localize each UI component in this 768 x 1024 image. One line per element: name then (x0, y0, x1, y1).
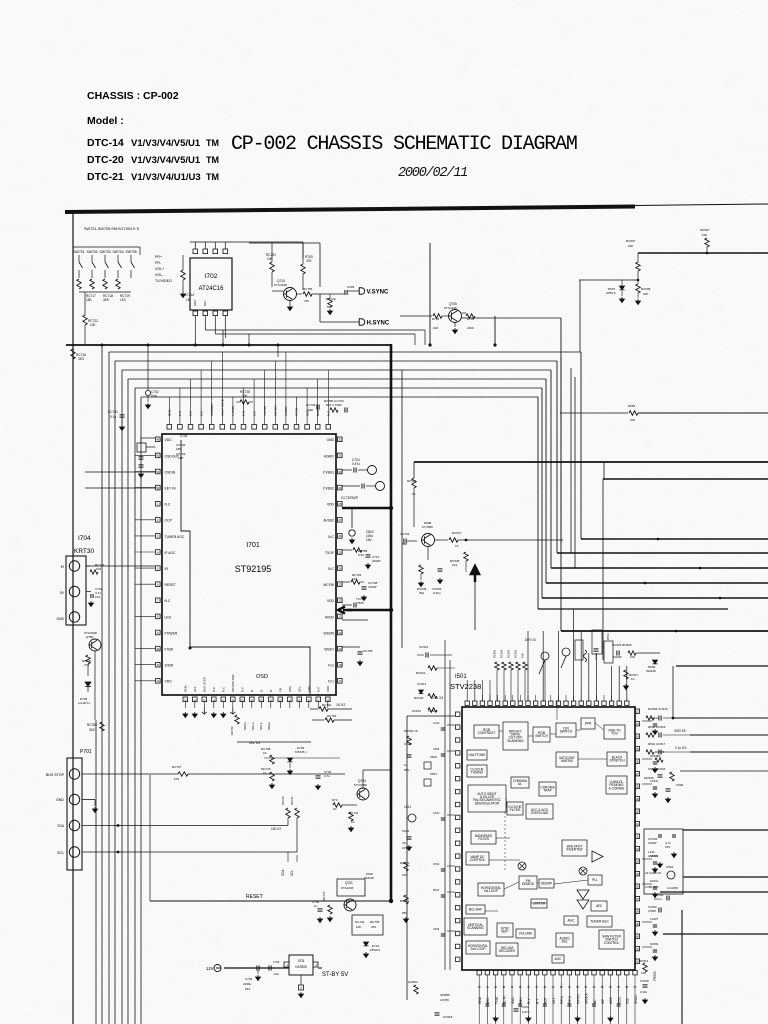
connector P701 box (67, 758, 82, 870)
svg-text:GND: GND (56, 798, 64, 802)
svg-text:FILTER: FILTER (478, 837, 489, 841)
svg-text:LIMITER: LIMITER (533, 902, 546, 906)
wire right y830 (683, 829, 768, 831)
svg-text:NC: NC (593, 999, 597, 1004)
svg-text:INVERTER: INVERTER (566, 848, 583, 852)
svg-text:KTA1266: KTA1266 (341, 886, 354, 890)
svg-text:1K: 1K (631, 677, 635, 681)
svg-text:ST92195: ST92195 (235, 564, 272, 574)
svg-text:GND: GND (168, 409, 172, 417)
svg-text:100: 100 (174, 777, 179, 781)
wire RESET left vertical (149, 775, 151, 901)
svg-text:1K3: 1K3 (120, 298, 126, 302)
svg-text:CC518: CC518 (443, 1015, 453, 1019)
left vertical bus bundle (108, 352, 110, 1024)
wire x604 down (603, 462, 605, 479)
svg-text:RC720: RC720 (281, 796, 285, 805)
svg-text:CVBS1: CVBS1 (323, 470, 334, 474)
svg-text:N.C: N.C (328, 664, 334, 668)
svg-text:2000/02/11: 2000/02/11 (398, 166, 467, 181)
svg-text:N.C: N.C (252, 410, 256, 416)
wire Q705 collector to x561 (462, 317, 562, 319)
wire right bus y462 thick (414, 461, 768, 463)
junction dots right buses (657, 538, 660, 541)
svg-text:SW721-SW705:SKHV17904 K 5: SW721-SW705:SKHV17904 K 5 (84, 227, 139, 231)
svg-text:MATRIX: MATRIX (561, 759, 574, 763)
svg-text:SW704: SW704 (113, 250, 124, 254)
wire top right horizontal y253 (638, 252, 768, 254)
svg-text:DECODER: DECODER (499, 949, 516, 953)
svg-text:C513: C513 (433, 862, 440, 866)
svg-text:APR: APR (585, 722, 592, 726)
svg-text:SEC: SEC (486, 997, 490, 1004)
svg-text:GND: GND (305, 409, 309, 417)
I501 left pin column (456, 712, 460, 716)
svg-text:MC727: MC727 (322, 891, 326, 901)
svg-text:AF1: AF1 (193, 686, 197, 692)
junction dots P701 wires (117, 824, 120, 827)
svg-text:WSOR: WSOR (323, 631, 334, 635)
svg-text:TXOF: TXOF (325, 551, 334, 555)
svg-text:P701: P701 (80, 749, 92, 755)
block HALFTONE (467, 750, 487, 760)
wires pullups down (287, 818, 289, 826)
wire harness right verticals down to STV top (560, 357, 562, 543)
resistors RC720 RC721 pullups (286, 808, 290, 818)
junction dot RC537 wire (465, 539, 468, 542)
svg-text:R-Y: R-Y (527, 998, 531, 1004)
I701 F/SW junction dot (189, 647, 192, 650)
I702 top pin rail wire (190, 241, 240, 243)
svg-text:1st LOOP: 1st LOOP (484, 889, 498, 893)
svg-text:GG504: GG504 (408, 980, 418, 984)
svg-text:1K: 1K (455, 544, 459, 548)
svg-text:OCP: OCP (165, 519, 173, 523)
svg-text:AGC: AGC (568, 919, 576, 923)
svg-text:N.C: N.C (328, 567, 334, 571)
svg-text:N.C: N.C (189, 410, 193, 416)
svg-text:TM: TM (206, 138, 219, 148)
svg-text:SCL2: SCL2 (259, 722, 263, 730)
I701 bottom pin grounds and arrows (183, 712, 188, 718)
svg-text:470: 470 (371, 925, 376, 929)
wire cluster y742 (237, 741, 311, 743)
svg-text:HSYNC: HSYNC (274, 405, 278, 416)
svg-text:A.PWR: A.PWR (231, 405, 235, 416)
svg-text:PIF-2: PIF-2 (568, 996, 572, 1004)
wire Q780 up (94, 651, 96, 720)
heavy vertical x682 bottom right (681, 910, 683, 1024)
svg-text:SANKA: SANKA (585, 992, 589, 1004)
vertical wires left of I501 (444, 640, 446, 970)
svg-text:FILTER: FILTER (510, 808, 521, 812)
svg-text:N.C: N.C (241, 686, 245, 692)
svg-text:PR+: PR+ (155, 255, 162, 259)
wire VDD heavy y508 (342, 507, 391, 510)
I501 bottom fanout wires (478, 982, 480, 1024)
resistor RC718 (90, 279, 94, 289)
svg-text:ST-BY 5V: ST-BY 5V (322, 972, 348, 978)
block VOLUME (516, 929, 535, 938)
resistor RC719 (103, 279, 107, 289)
wire vertical x223 (222, 330, 224, 345)
block VAMP DC CONTROL (466, 852, 489, 865)
svg-text:L761: L761 (273, 960, 280, 964)
svg-text:56K: 56K (402, 911, 407, 915)
svg-text:KTC3198: KTC3198 (354, 783, 367, 787)
svg-text:CP-002 CHASSIS SCHEMATIC DIAG: CP-002 CHASSIS SCHEMATIC DIAGRAM (231, 133, 577, 156)
svg-text:VDD K5: VDD K5 (674, 729, 686, 733)
block FM DEMOD (519, 876, 537, 889)
svg-text:16V: 16V (665, 845, 670, 849)
block HORIZONTAL 2nd LOOP (466, 941, 490, 954)
svg-text:TUNER AGC: TUNER AGC (590, 920, 609, 924)
resistor RC717 (77, 279, 81, 289)
svg-text:100: 100 (242, 394, 248, 398)
svg-text:SDA2: SDA2 (267, 722, 271, 730)
svg-text:SCL: SCL (203, 300, 207, 306)
svg-text:16V: 16V (245, 987, 250, 991)
svg-text:LS11: LS11 (404, 805, 411, 809)
resistor RC755 47K (296, 293, 302, 295)
svg-text:B: B (250, 690, 254, 692)
svg-text:I702: I702 (205, 273, 218, 280)
block VERTICAL SCANNING (464, 918, 487, 935)
svg-text:SW705: SW705 (126, 250, 137, 254)
svg-text:10K: 10K (433, 326, 438, 330)
svg-text:SCREEN: SCREEN (210, 403, 214, 416)
connector H.SYNC (359, 319, 365, 326)
resistor RC714 vertical (182, 255, 184, 270)
wire right bus y553 (557, 552, 768, 554)
wire to H.SYNC (320, 321, 359, 323)
svg-text:4.7u: 4.7u (324, 774, 330, 778)
svg-text:0.1u X3: 0.1u X3 (432, 696, 443, 700)
block SEC AM DECODER (496, 943, 518, 956)
svg-text:X22: X22 (626, 998, 630, 1004)
block DEEMP (539, 879, 554, 888)
svg-text:100: 100 (90, 323, 96, 327)
svg-text:TUNING: TUNING (471, 771, 484, 775)
resistor RC7110 (116, 279, 120, 289)
svg-text:SDA: SDA (193, 300, 197, 306)
wire I704 IR to I701 (86, 565, 155, 567)
IC I703 KA7805 box (289, 955, 313, 975)
block CLOCHE FILTER (507, 802, 523, 815)
wire right y934 (663, 933, 768, 935)
wire vertical x249 (248, 334, 250, 345)
svg-text:10K: 10K (628, 244, 633, 248)
svg-text:SCL: SCL (57, 851, 64, 855)
svg-text:N.C: N.C (199, 410, 203, 416)
wire x495 vertical (494, 316, 496, 345)
svg-text:DL: DL (518, 782, 522, 786)
svg-text:YSYNC: YSYNC (263, 405, 267, 416)
block AFC (591, 901, 607, 911)
I701 bottom pin row (183, 697, 188, 702)
svg-text:RC504: RC504 (500, 649, 504, 658)
svg-text:FB: FB (279, 688, 283, 692)
svg-text:RC767: RC767 (172, 765, 182, 769)
svg-text:DEMODULATOR: DEMODULATOR (475, 801, 500, 805)
capacitor C303 (330, 293, 344, 295)
svg-text:RC505: RC505 (493, 649, 497, 658)
top border thin continuation (635, 204, 768, 206)
svg-text:RESET: RESET (165, 583, 176, 587)
small rect above I501 right (604, 641, 613, 663)
svg-text:1u: 1u (314, 904, 318, 908)
svg-text:CC733: CC733 (306, 403, 316, 407)
variable arrows above I501 (541, 652, 549, 660)
svg-text:CC511: CC511 (417, 682, 426, 686)
wire I702 rail to right (240, 241, 303, 243)
svg-text:C522: C522 (402, 829, 410, 833)
svg-text:CC523 RC506: CC523 RC506 (612, 643, 632, 647)
svg-text:4700P: 4700P (368, 585, 377, 589)
svg-text:SW702: SW702 (87, 250, 98, 254)
svg-text:10u: 10u (274, 972, 279, 976)
svg-text:SW701: SW701 (74, 250, 85, 254)
wire right y771 (680, 770, 768, 772)
block AUTO IDENT & KILLER PAL/SECAM/NTSC DEMODULATOR (468, 785, 506, 812)
wire right bus y479 with corner (603, 478, 768, 480)
svg-text:MC567: MC567 (700, 228, 710, 232)
block SYNC SEP- (497, 923, 513, 937)
svg-text:SDA3: SDA3 (243, 722, 247, 730)
wire reset heavy junction (389, 899, 393, 903)
svg-text:I2N559: I2N559 (440, 993, 450, 997)
vertical steps to right buses (580, 352, 582, 539)
svg-text:GND: GND (326, 438, 334, 442)
svg-text:5.6u: 5.6u (151, 394, 157, 398)
block BCL/SAF (466, 905, 485, 914)
svg-text:C524: C524 (404, 742, 412, 746)
svg-text:2nd LOOP: 2nd LOOP (470, 947, 485, 951)
svg-text:X501: X501 (430, 772, 437, 776)
switch top rail wire (73, 246, 140, 248)
wire top rail to Q710 network (249, 242, 320, 244)
block AGC (564, 916, 578, 925)
svg-text:10K: 10K (702, 233, 707, 237)
I501 right pin column (635, 709, 639, 713)
svg-text:1K K2: 1K K2 (336, 703, 345, 707)
IC I701 ST92195 box (162, 434, 336, 695)
svg-text:IR: IR (61, 565, 65, 569)
svg-text:CC512: CC512 (419, 645, 429, 649)
svg-text:2.2U(NP): 2.2U(NP) (667, 886, 678, 890)
svg-text:16V: 16V (95, 595, 100, 599)
svg-text:I501: I501 (455, 674, 467, 680)
svg-text:CC537: CC537 (650, 854, 659, 858)
svg-text:C520: C520 (676, 783, 684, 787)
svg-text:N.C: N.C (327, 410, 331, 416)
svg-text:AFC: AFC (596, 904, 603, 908)
svg-text:TM: TM (206, 155, 219, 165)
wire right y752 to edge (690, 751, 768, 753)
svg-text:RC514: RC514 (639, 959, 649, 963)
block SAW FILTER SWITCH CONTROL (599, 930, 624, 949)
svg-text:TV/VIDEO: TV/VIDEO (155, 279, 172, 283)
svg-text:AGC: AGC (555, 957, 563, 961)
svg-text:RC240: RC240 (414, 696, 424, 700)
svg-text:1000P: 1000P (613, 655, 622, 659)
svg-text:3K3: 3K3 (78, 357, 84, 361)
svg-text:KEY: KEY (552, 997, 556, 1004)
wire bus junction x430 (428, 343, 431, 346)
svg-text:SEL: SEL (561, 940, 567, 944)
svg-text:3K9: 3K9 (103, 298, 109, 302)
block AGC (552, 955, 564, 963)
svg-text:KRT30: KRT30 (74, 548, 94, 555)
svg-text:47K: 47K (521, 653, 525, 658)
svg-text:IN4148: IN4148 (364, 876, 374, 880)
svg-text:C526: C526 (433, 747, 440, 751)
svg-text:WSD7: WSD7 (324, 648, 334, 652)
wire vertical x673 up to y666 bus (672, 666, 674, 718)
wire main bus y345 (66, 344, 391, 346)
block LUMA DL PEAKING & CORING (606, 776, 627, 794)
svg-text:10K: 10K (643, 292, 648, 296)
svg-text:100: 100 (630, 418, 635, 422)
block BLACK STRETCH (607, 752, 627, 766)
svg-text:2200P: 2200P (372, 559, 381, 563)
svg-text:GND: GND (316, 409, 320, 417)
svg-text:SEP-: SEP- (501, 930, 508, 934)
svg-text:AGC: AGC (609, 996, 613, 1004)
svg-text:RC509: RC509 (650, 942, 659, 946)
I702 top pins (193, 249, 198, 254)
svg-text:RC766: RC766 (230, 726, 234, 735)
svg-text:1K2: 1K2 (452, 563, 458, 567)
wire heavy vertical x391 VDD (390, 344, 393, 902)
svg-text:MCFW: MCFW (323, 583, 334, 587)
wire KA7805 out (318, 967, 322, 969)
svg-text:SCANNING: SCANNING (467, 926, 484, 930)
svg-text:SDA: SDA (281, 869, 285, 876)
svg-text:CC531: CC531 (650, 779, 659, 783)
svg-text:HDMO: HDMO (324, 454, 335, 458)
svg-text:IN4148: IN4148 (646, 669, 656, 673)
svg-text:Model :: Model : (87, 115, 124, 127)
svg-text:0.33u: 0.33u (433, 591, 441, 595)
wire heavy y610 (338, 607, 352, 614)
mixer circle x (579, 867, 587, 875)
vertical stubs left of I701 (134, 397, 136, 680)
svg-text:RC721: RC721 (290, 796, 294, 805)
svg-text:0.33u: 0.33u (640, 990, 647, 994)
svg-text:15K: 15K (86, 298, 93, 302)
svg-text:5V: 5V (60, 591, 65, 595)
wire right bus y631 (561, 630, 768, 632)
svg-text:I704: I704 (78, 535, 91, 542)
wire P701 SCL (82, 851, 297, 853)
svg-text:STRETCH: STRETCH (609, 759, 625, 763)
svg-text:10K: 10K (267, 257, 274, 261)
svg-text:AVDD1: AVDD1 (284, 406, 288, 416)
svg-text:S2A: S2A (57, 824, 64, 828)
I501 bottom pin row (477, 971, 481, 975)
wires above I501 connecting (544, 660, 546, 701)
svg-text:4700P: 4700P (648, 909, 656, 913)
svg-text:IR: IR (165, 567, 169, 571)
svg-text:AVSS2: AVSS2 (323, 519, 334, 523)
svg-text:KA7805: KA7805 (295, 965, 307, 969)
svg-text:BCL/SAF: BCL/SAF (469, 908, 482, 912)
svg-text:YUV: YUV (611, 732, 618, 736)
svg-text:RESET: RESET (246, 894, 263, 900)
resistors above I501 rotated cluster (495, 662, 499, 670)
cap cluster above I501 (594, 649, 599, 651)
svg-text:PYFB: PYFB (295, 408, 299, 416)
I501 top pin row (465, 701, 469, 705)
svg-text:IF AGC: IF AGC (165, 551, 177, 555)
svg-text:DEEMP: DEEMP (541, 882, 552, 886)
svg-text:10K: 10K (402, 873, 407, 877)
svg-text:R501 CC517: R501 CC517 (648, 742, 666, 746)
resistor RC766 (235, 715, 239, 724)
svg-text:N.C: N.C (242, 410, 246, 416)
svg-text:RC762: RC762 (322, 703, 332, 707)
svg-text:RC755: RC755 (303, 287, 313, 291)
svg-text:LH-2P-H: LH-2P-H (78, 701, 90, 705)
svg-text:N.C: N.C (165, 599, 171, 603)
junction dots on main bus (101, 344, 104, 347)
svg-text:CONTROL: CONTROL (604, 941, 620, 945)
svg-text:0.1u: 0.1u (110, 415, 116, 419)
svg-text:PIF/V3: PIF/V3 (576, 994, 580, 1004)
svg-text:I701: I701 (246, 542, 260, 549)
svg-text:CONTRAST: CONTRAST (478, 731, 496, 735)
I701 inner OSD outline (181, 440, 310, 694)
block RGB TO YUV (604, 725, 625, 739)
box CC532 cluster (644, 829, 683, 894)
svg-text:CC724: CC724 (400, 532, 410, 536)
wire step y280 (579, 279, 638, 281)
wire Q705 line to left (400, 315, 425, 317)
svg-text:Vsap: Vsap (494, 997, 498, 1004)
svg-text:VCO: VCO (617, 997, 621, 1004)
wire CVBS1 to right (342, 485, 360, 487)
schematic top border line (65, 207, 635, 213)
svg-text:KEY IN: KEY IN (165, 487, 177, 491)
svg-text:SCL: SCL (290, 870, 294, 876)
svg-text:C501: C501 (522, 1005, 530, 1009)
svg-text:2200u: 2200u (243, 982, 252, 986)
svg-text:0.1u K3: 0.1u K3 (675, 746, 686, 750)
amp triangle W/B spot (592, 851, 603, 862)
svg-text:H.SYNC: H.SYNC (367, 320, 390, 326)
svg-text:OSDIN: OSDIN (165, 470, 176, 474)
svg-text:RC541: RC541 (416, 671, 426, 675)
svg-text:VOL+: VOL+ (155, 267, 164, 271)
wire x148 down to C702 (147, 345, 149, 390)
I704 pin circles (69, 561, 79, 571)
svg-text:RC735: RC735 (370, 920, 380, 924)
block APR (581, 718, 595, 729)
svg-text:750P: 750P (357, 601, 364, 605)
IC I702 AT24C16 box (190, 258, 232, 310)
svg-text:SWITCH: SWITCH (560, 730, 573, 734)
block CLOCHE TUNING (467, 765, 487, 777)
svg-text:DTC-20: DTC-20 (87, 154, 124, 166)
svg-text:D513: D513 (606, 633, 610, 640)
block ACC & AGC OVERLOAD (526, 804, 553, 819)
svg-text:Q780: Q780 (86, 635, 94, 639)
svg-text:C504: C504 (666, 865, 674, 869)
svg-text:KTC3198: KTC3198 (274, 283, 287, 287)
capacitor symbols in CC532 box (658, 835, 662, 837)
svg-text:GND2: GND2 (634, 995, 638, 1004)
